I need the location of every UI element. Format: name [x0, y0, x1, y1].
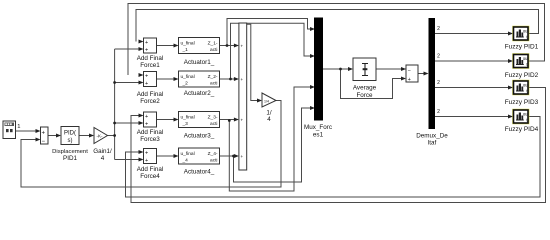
- wire Demux out2 to Fuzzy PID2: [435, 60, 512, 62]
- svg-text:ou: ou: [523, 56, 528, 61]
- wire tall sum to gain 1/4: [247, 24, 261, 100]
- svg-text:1/4: 1/4: [264, 99, 269, 103]
- svg-text:Actuator1_: Actuator1_: [184, 59, 215, 66]
- wire actuator1 to Mux input1: [227, 19, 314, 46]
- svg-text:Force1: Force1: [140, 62, 160, 69]
- wire Demux out1 to Fuzzy PID1: [435, 33, 512, 35]
- wire PID to Gain: [79, 135, 93, 137]
- svg-text:4: 4: [267, 116, 271, 123]
- wire PID2 feedback top outer: [128, 4, 545, 76]
- svg-text:Add Final: Add Final: [137, 91, 164, 98]
- wire Demux out4 to Fuzzy PID4: [435, 116, 512, 118]
- svg-text:4: 4: [101, 155, 105, 162]
- svg-text:Demux_De: Demux_De: [416, 133, 448, 140]
- subsystem Fuzzy PID3: [505, 80, 539, 106]
- sum block Add Final Force2: [137, 72, 164, 106]
- wire branch to Add3 in2: [115, 122, 143, 124]
- svg-text:Add Final: Add Final: [137, 129, 164, 136]
- wire PID3 feedback bottom: [131, 88, 546, 203]
- demux Demux_Detaf: [416, 18, 448, 147]
- wire actuator4 to Mux input4: [234, 108, 315, 182]
- wire distribution vertical: [114, 49, 116, 160]
- svg-text:−: −: [42, 139, 46, 145]
- sum block Add Final Force4: [137, 149, 164, 181]
- svg-text:+: +: [145, 40, 148, 46]
- svg-text:u_final: u_final: [181, 151, 195, 157]
- sum block force deviation: [406, 65, 418, 83]
- svg-text:u_final: u_final: [181, 115, 195, 121]
- wire Actuator4 to tall sum: [220, 155, 238, 157]
- svg-text:Mux_Forc: Mux_Forc: [304, 124, 332, 131]
- sum block Add Final Force3: [137, 112, 164, 143]
- svg-text:+: +: [145, 73, 148, 79]
- wire Average Force to small sum minus: [376, 68, 406, 70]
- svg-text:Actuator3_: Actuator3_: [184, 133, 215, 140]
- gain block Gain1/4: [93, 128, 112, 163]
- subsystem Actuator1: [179, 38, 220, 67]
- svg-text:Fuzzy PID1: Fuzzy PID1: [505, 44, 539, 51]
- svg-text:1: 1: [17, 124, 20, 130]
- svg-text:2: 2: [437, 26, 440, 32]
- svg-text:Force: Force: [356, 92, 373, 99]
- svg-text:Fuzzy PID3: Fuzzy PID3: [505, 99, 539, 106]
- svg-text:2: 2: [437, 109, 440, 115]
- wire Add4 to Actuator4: [157, 155, 178, 157]
- gain block 1/4: [262, 93, 276, 123]
- svg-text:Z_3-: Z_3-: [208, 115, 218, 121]
- svg-text:+: +: [42, 131, 46, 137]
- subsystem Average Force: [353, 58, 377, 99]
- svg-text:u_final: u_final: [181, 74, 195, 80]
- svg-text:+: +: [240, 154, 243, 159]
- sum block Add Final Force1: [137, 38, 164, 69]
- svg-text:+: +: [408, 77, 411, 83]
- tall sum block: [239, 23, 247, 170]
- signal builder block: [3, 121, 16, 139]
- svg-text:−: −: [408, 69, 411, 75]
- wire displacement feedback bottom: [21, 101, 281, 188]
- wire branch to Add2 in2: [115, 82, 143, 84]
- svg-text:acti: acti: [210, 81, 217, 87]
- wire Actuator2 to tall sum: [220, 78, 238, 80]
- svg-text:-K-: -K-: [97, 134, 104, 139]
- subsystem Fuzzy PID1: [505, 26, 539, 51]
- wire Add1 to Actuator1: [157, 45, 178, 47]
- wire PID4 feedback bottom: [126, 117, 541, 198]
- svg-text:+: +: [240, 77, 243, 82]
- svg-text:+: +: [145, 121, 148, 127]
- svg-text:s): s): [68, 138, 73, 144]
- svg-text:Average: Average: [353, 85, 377, 92]
- svg-text:Add Final: Add Final: [137, 55, 164, 62]
- wire PID1 feedback top inner: [136, 10, 539, 42]
- svg-text:Force3: Force3: [140, 136, 160, 143]
- svg-text:Actuator4_: Actuator4_: [184, 169, 215, 176]
- wire source to Sum1: [16, 130, 40, 132]
- subsystem Fuzzy PID2: [505, 53, 539, 79]
- mux Mux_Forces1: [304, 18, 332, 139]
- svg-text:+: +: [240, 44, 243, 49]
- svg-text:_3: _3: [182, 121, 189, 127]
- svg-text:ou: ou: [523, 112, 528, 117]
- svg-text:+: +: [145, 150, 148, 156]
- svg-text:2: 2: [437, 80, 440, 86]
- svg-text:Actuator2_: Actuator2_: [184, 90, 215, 97]
- svg-text:Z_4-: Z_4-: [208, 151, 218, 157]
- PID block Displacement PID1: [52, 127, 88, 163]
- svg-text:ltaf: ltaf: [428, 140, 437, 147]
- svg-text:Fuzzy PID2: Fuzzy PID2: [505, 72, 539, 79]
- svg-text:acti: acti: [210, 158, 217, 164]
- svg-text:Force4: Force4: [140, 173, 160, 180]
- arrowheads: [36, 27, 514, 162]
- wire Sum1 to PID: [48, 135, 60, 137]
- wire actuator2 to Mux input2: [231, 23, 315, 79]
- wire Add2 to Actuator2: [157, 78, 178, 80]
- wire branch to Add1 in2: [115, 48, 143, 50]
- wire actuator3 to Mux input3: [229, 87, 314, 191]
- svg-text:ou: ou: [523, 83, 528, 88]
- wire Mux to Average Force: [323, 68, 352, 70]
- svg-text:PID1: PID1: [63, 155, 77, 162]
- svg-text:_2: _2: [182, 81, 189, 87]
- svg-text:+: +: [145, 158, 148, 164]
- wire Actuator1 to tall sum: [220, 45, 238, 47]
- wire Add3 to Actuator3: [157, 119, 178, 121]
- svg-text:acti: acti: [210, 47, 217, 53]
- svg-text:+: +: [240, 118, 243, 123]
- sum block Sum1: [41, 127, 49, 145]
- wire Gain to distribution line: [108, 135, 115, 137]
- wire branch to Add4 in2: [115, 159, 143, 161]
- svg-text:_4: _4: [182, 158, 189, 164]
- subsystem Fuzzy PID4: [505, 109, 539, 133]
- subsystem Actuator3: [179, 112, 220, 140]
- svg-text:Force2: Force2: [140, 98, 160, 105]
- wire small sum to Demux: [418, 73, 428, 75]
- svg-text:u_final: u_final: [181, 41, 195, 47]
- svg-text:_1: _1: [182, 47, 189, 53]
- junction dots: [113, 44, 342, 157]
- svg-text:es1: es1: [313, 132, 324, 139]
- svg-text:+: +: [145, 81, 148, 87]
- svg-text:+: +: [145, 114, 148, 120]
- svg-text:ou: ou: [523, 29, 528, 34]
- subsystem Actuator4: [179, 148, 220, 176]
- svg-text:Gain1/: Gain1/: [93, 148, 112, 155]
- svg-text:Z_2-: Z_2-: [208, 74, 218, 80]
- svg-text:Z_1-: Z_1-: [208, 41, 218, 47]
- svg-text:+: +: [145, 47, 148, 53]
- svg-text:acti: acti: [210, 121, 217, 127]
- wire Demux out3 to Fuzzy PID3: [435, 87, 512, 89]
- svg-text:Fuzzy PID4: Fuzzy PID4: [505, 126, 539, 133]
- svg-text:2: 2: [437, 54, 440, 60]
- svg-text:Add Final: Add Final: [137, 166, 164, 173]
- svg-text:PID(: PID(: [64, 131, 76, 137]
- subsystem Actuator2: [179, 71, 220, 97]
- wire Actuator3 to tall sum: [220, 119, 238, 121]
- wire branch mux signal to small sum plus: [341, 69, 406, 99]
